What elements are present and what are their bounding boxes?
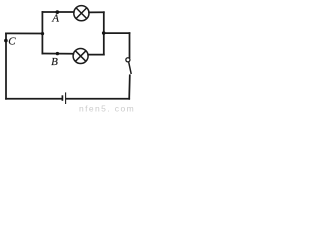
svg-text:C: C bbox=[8, 36, 16, 48]
wire (right junction to switch, horizontal) bbox=[104, 32, 130, 34]
svg-text:B: B bbox=[51, 56, 58, 68]
wire (top branch: left junction to lamp) bbox=[42, 11, 73, 13]
watermark text (faint) bbox=[79, 104, 135, 114]
node B (dot on bottom branch) bbox=[56, 52, 59, 55]
wire (bottom branch: left junction to lamp) bbox=[42, 53, 73, 55]
wire (bottom: battery negative plate to bottom-left corner) bbox=[6, 98, 62, 100]
label A bbox=[51, 13, 59, 25]
wire (left side vertical through node C) bbox=[5, 33, 7, 98]
node C (dot on left wire) bbox=[4, 39, 8, 43]
wire (right branch-junction vertical) bbox=[103, 12, 105, 54]
wire (left branch-junction vertical) bbox=[41, 12, 43, 54]
wire (bottom: switch corner to battery positive plate) bbox=[66, 98, 129, 100]
junction dot (left branch junction) bbox=[41, 32, 44, 35]
svg-text:nfen5. com: nfen5. com bbox=[79, 104, 135, 114]
junction dot (right branch junction) bbox=[102, 31, 106, 35]
node A (dot on top branch) bbox=[55, 10, 59, 14]
label C bbox=[8, 36, 16, 48]
battery (cell: long positive plate, short negative plate) bbox=[62, 92, 65, 104]
lamp (bottom branch, circle-X symbol) bbox=[73, 49, 88, 64]
wire (top branch: lamp to right junction) bbox=[89, 11, 104, 13]
svg-text:A: A bbox=[51, 13, 59, 25]
switch S (open knife switch) bbox=[126, 33, 131, 99]
wire (node C corner to left junction, horizontal) bbox=[6, 32, 42, 34]
label B bbox=[51, 56, 58, 68]
wire (bottom branch: lamp to right junction) bbox=[88, 54, 104, 56]
lamp (top branch, circle-X symbol) bbox=[74, 6, 89, 21]
